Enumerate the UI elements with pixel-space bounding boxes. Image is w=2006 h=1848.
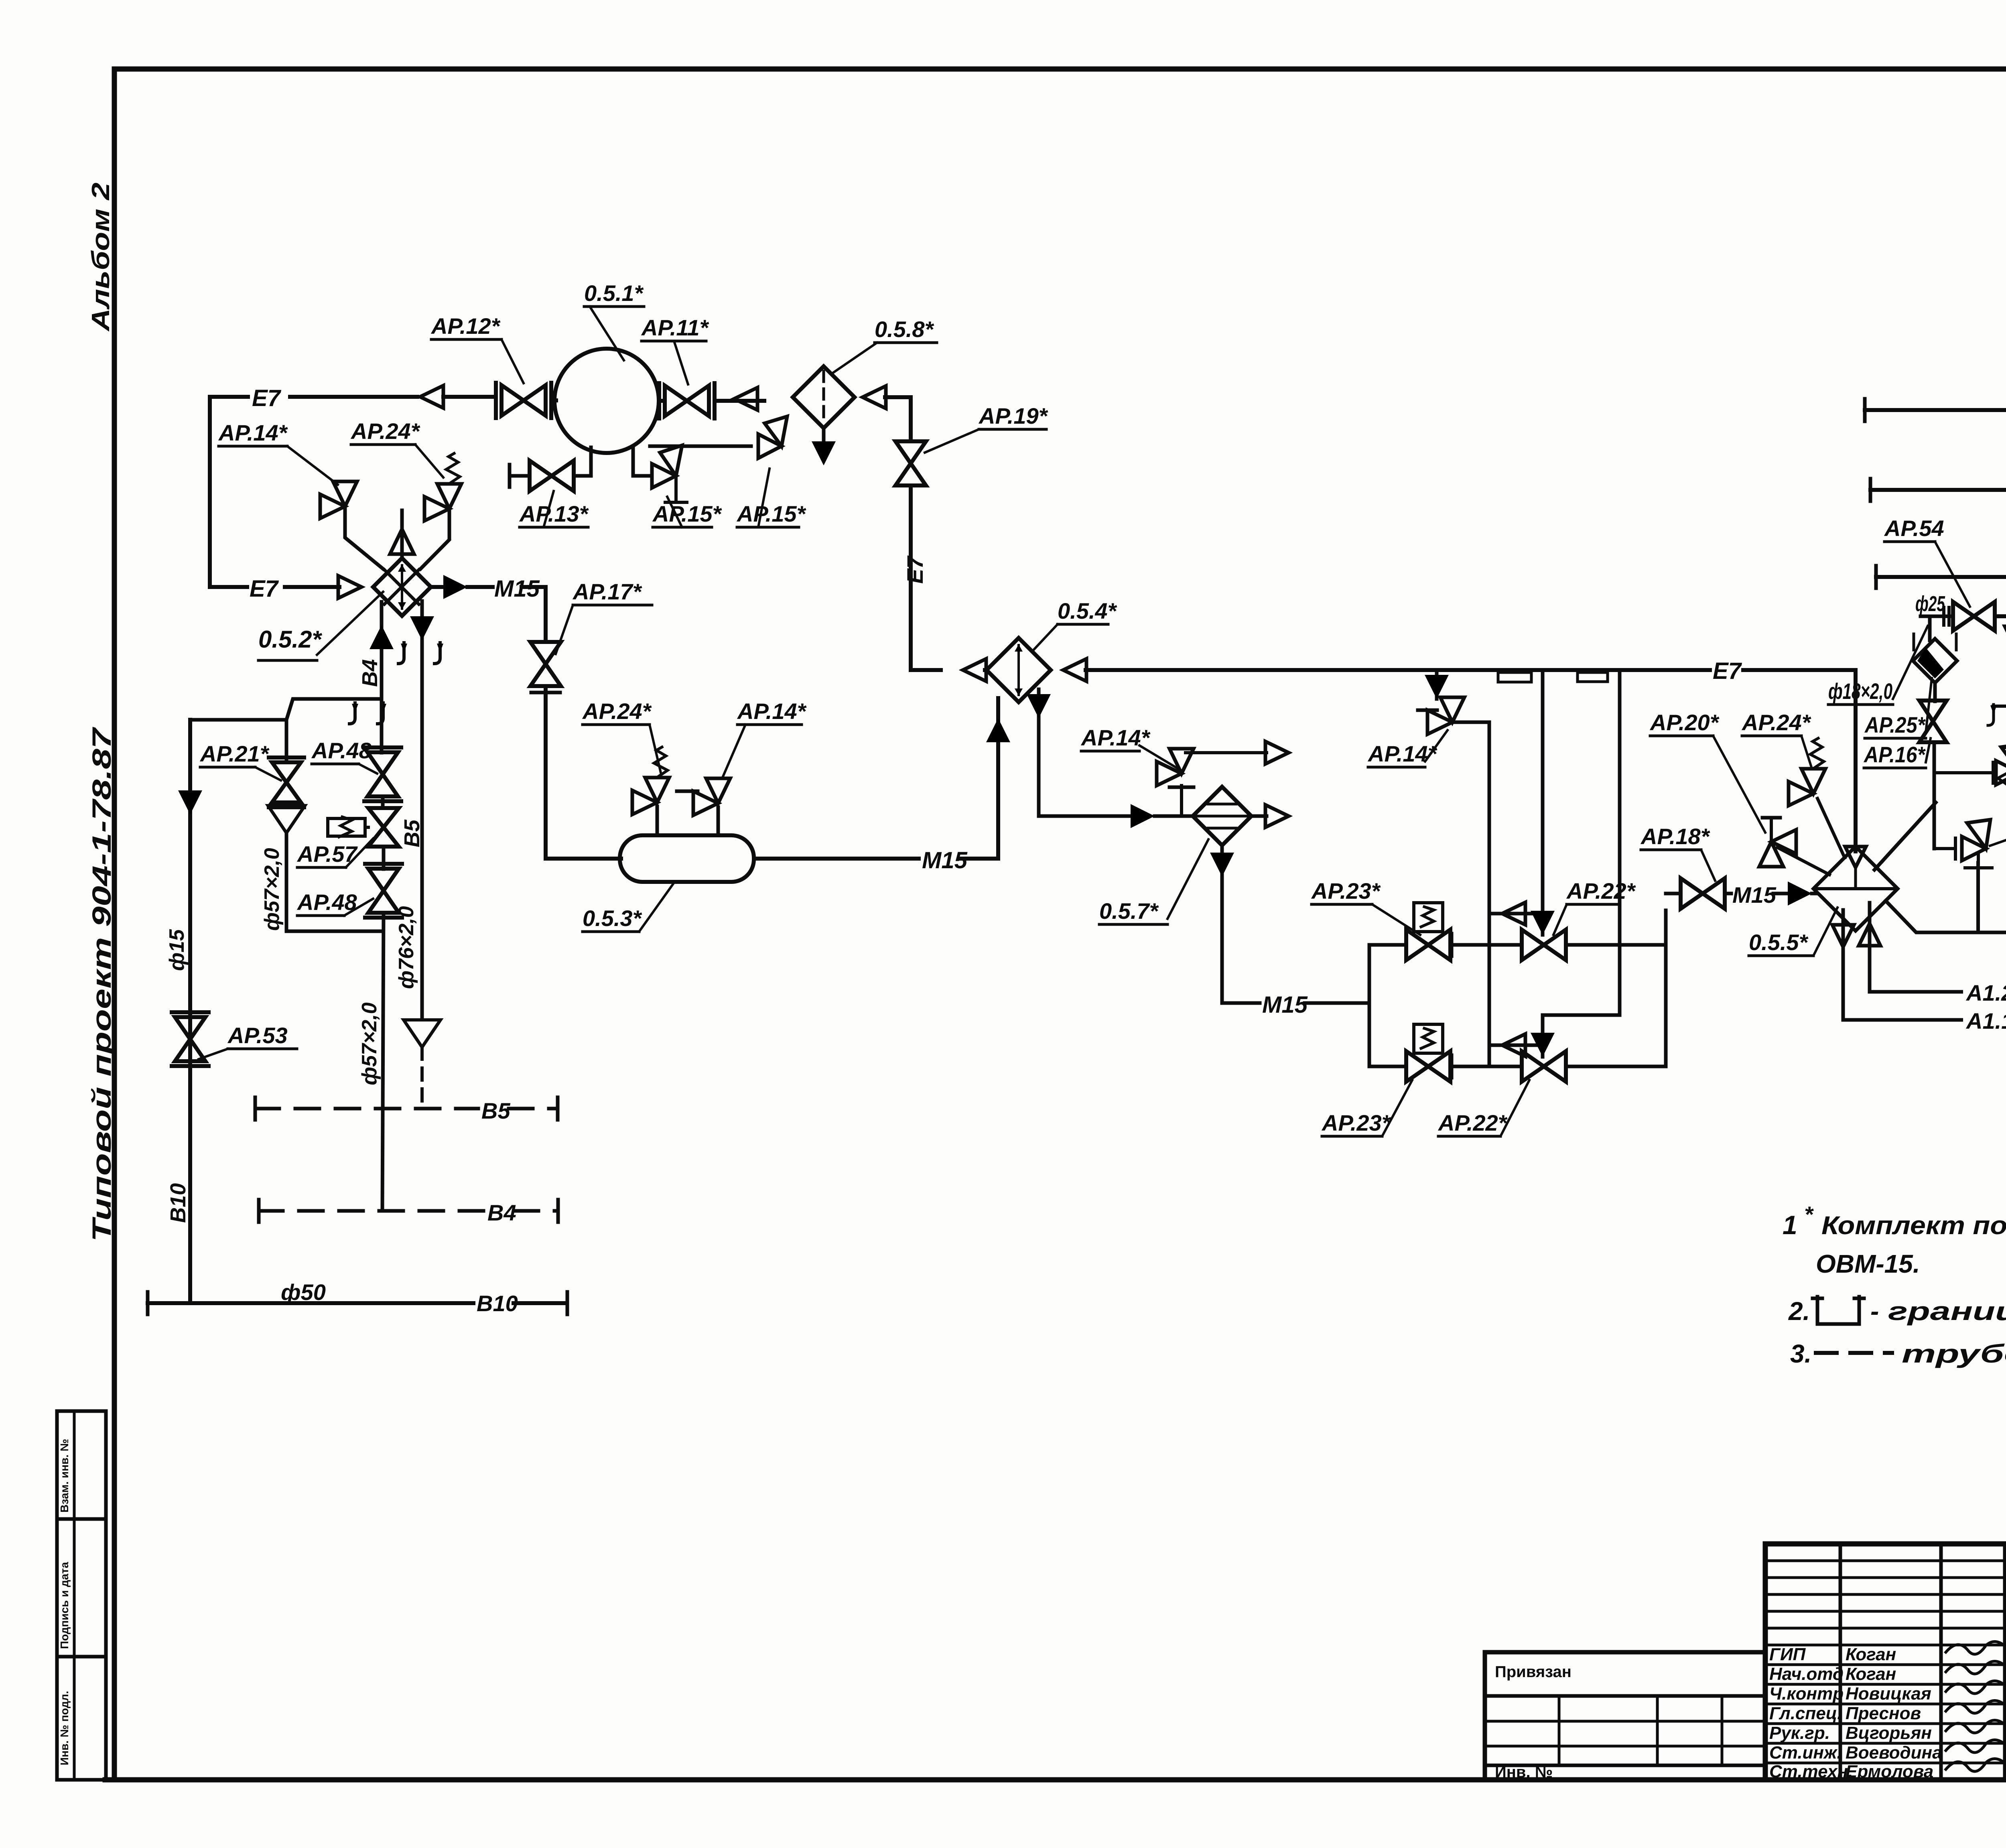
svg-text:Ч.контр: Ч.контр bbox=[1769, 1684, 1844, 1704]
note line 3 bbox=[1788, 1297, 2006, 1326]
title block signature squiggles bbox=[1946, 1641, 2005, 1771]
label 0.5.3 bbox=[583, 883, 674, 932]
label AR.22 lower bbox=[1437, 1080, 1529, 1136]
wire 0.5.6 bottom stubs bbox=[0, 0, 0, 0]
svg-text:АР.19*: АР.19* bbox=[978, 403, 1048, 428]
valve AR.11 bbox=[659, 383, 715, 418]
label AR.57 bbox=[296, 839, 373, 867]
valve AR.17 bbox=[530, 642, 561, 686]
label AR.17 bbox=[556, 579, 652, 654]
wire vessel to valve AR.11 bbox=[659, 399, 664, 403]
svg-text:ф15: ф15 bbox=[165, 929, 189, 971]
exchanger 0.5.4 bbox=[987, 638, 1051, 702]
wire 0.5.2 top vent bbox=[390, 510, 414, 558]
svg-text:ф18×2,0: ф18×2,0 bbox=[1828, 678, 1892, 704]
wire E7 drop to 0.5.5 bbox=[1854, 670, 1858, 851]
svg-text:АР.54: АР.54 bbox=[1884, 516, 1944, 541]
wire AR.15 tap upper bbox=[1934, 762, 1993, 783]
label AR.15 b bbox=[736, 469, 806, 527]
svg-text:ф25: ф25 bbox=[1915, 592, 1945, 616]
svg-text:Е7: Е7 bbox=[902, 555, 928, 584]
label AR.23 lower bbox=[1321, 1080, 1412, 1136]
safety valve AR.24 on 0.5.5 bbox=[1789, 738, 1845, 858]
wire AR.15 lower drop bbox=[1977, 868, 1980, 932]
node A1.1 loop label gap bbox=[1963, 1007, 2006, 1034]
node B5 label bbox=[481, 1098, 510, 1123]
label 0.5.8 bbox=[832, 317, 937, 373]
svg-text:Типовой проект 904-1-78.87: Типовой проект 904-1-78.87 bbox=[87, 726, 116, 1242]
valve AR.15 b bbox=[758, 416, 787, 458]
flow arrow right of 0.5.4 bbox=[1063, 659, 1086, 681]
privyazan table bbox=[1485, 1652, 1765, 1781]
wire 0.5.2 arm up-right bbox=[420, 509, 449, 569]
label AR.18 bbox=[1640, 824, 1715, 881]
svg-text:ф25: ф25 bbox=[2004, 434, 2006, 477]
valve AR.16 bbox=[1919, 701, 1947, 742]
wire AR.22 lower feed bbox=[1531, 672, 1620, 1057]
label AR.24 on 0.5.3 bbox=[582, 699, 661, 774]
label AR.12 bbox=[430, 313, 524, 383]
node f50 label bbox=[281, 1279, 326, 1305]
valve AR.14 on E7 drop bbox=[1418, 697, 1464, 734]
wire shelf lower bbox=[1489, 1034, 1543, 1056]
svg-text:АР.24*: АР.24* bbox=[1741, 710, 1811, 735]
svg-text:В5: В5 bbox=[400, 819, 424, 847]
wire vertical AR.14 branch bbox=[1425, 672, 1449, 699]
wire M15 to bypass bbox=[1222, 1001, 1369, 1005]
svg-text:АР.14*: АР.14* bbox=[1367, 741, 1437, 766]
node f25 rotated label bbox=[2004, 434, 2006, 477]
wire bypass left header bbox=[1368, 945, 1371, 1066]
node E7 main label bbox=[1713, 658, 1742, 684]
filter 0.5.8 bbox=[793, 366, 855, 428]
svg-text:АР.23*: АР.23* bbox=[1321, 1110, 1391, 1135]
svg-text:Новицкая: Новицкая bbox=[1846, 1684, 1931, 1704]
label 0.5.2 bbox=[258, 592, 383, 655]
svg-text:М15: М15 bbox=[1732, 882, 1777, 908]
svg-text:Ст.техн.: Ст.техн. bbox=[1769, 1762, 1853, 1781]
svg-text:АР.48: АР.48 bbox=[311, 738, 372, 763]
svg-text:АР.23*: АР.23* bbox=[1311, 878, 1381, 904]
vessel 0.5.3 bbox=[620, 835, 754, 882]
svg-text:АР.14*: АР.14* bbox=[218, 420, 288, 445]
wire 0.5.4 right drain bbox=[1027, 689, 1193, 828]
svg-text:ф57×2,0: ф57×2,0 bbox=[260, 848, 284, 931]
vessel 0.5.1 drain stubs bbox=[591, 446, 633, 476]
svg-text:граница поставки: граница поставки bbox=[1888, 1297, 2006, 1326]
svg-text:0.5.5*: 0.5.5* bbox=[1749, 930, 1809, 955]
valve AR.13 bbox=[530, 461, 574, 491]
note line 1 bbox=[1783, 1202, 2006, 1240]
node B10 label bbox=[477, 1291, 518, 1316]
boundary rect a bbox=[1498, 672, 1531, 682]
title block grid bbox=[1765, 1544, 2006, 1780]
valve AR.14 near 0.5.7 bbox=[1157, 749, 1194, 816]
svg-text:Е7: Е7 bbox=[1713, 658, 1742, 684]
svg-text:В10: В10 bbox=[166, 1183, 190, 1223]
wire AR.17 to vessel 0.5.3 bbox=[531, 687, 621, 859]
label AR.21 bbox=[199, 741, 281, 780]
svg-text:0.5.4*: 0.5.4* bbox=[1058, 598, 1117, 623]
title block signatures text bbox=[1769, 1645, 1942, 1781]
svg-text:АР.22*: АР.22* bbox=[1437, 1110, 1508, 1135]
svg-text:АР.18*: АР.18* bbox=[1640, 824, 1710, 849]
wire 0.5.5 bottom stubs bbox=[1832, 903, 1880, 992]
funnel on drain bbox=[404, 1020, 441, 1109]
svg-text:АР.24*: АР.24* bbox=[582, 699, 652, 724]
margin text project bbox=[87, 726, 116, 1242]
wire 0.5.2 arm up-left bbox=[345, 506, 383, 569]
svg-text:Рук.гр.: Рук.гр. bbox=[1769, 1723, 1830, 1743]
label AR.20 bbox=[1649, 710, 1765, 833]
node f57 rotated label a bbox=[260, 848, 284, 931]
wire M15 into 0.5.5 bbox=[1726, 881, 1817, 906]
valve AR.15 right lower bbox=[1962, 820, 1992, 868]
node E7 lower label bbox=[250, 576, 279, 602]
node B10 rotated label bbox=[166, 1183, 190, 1223]
wire 0.5.5 up-right arm bbox=[1874, 802, 1936, 870]
svg-text:0.5.8*: 0.5.8* bbox=[875, 317, 934, 342]
valve AR.48 upper bbox=[364, 747, 401, 801]
svg-text:В10: В10 bbox=[477, 1291, 518, 1316]
wire AR.14 drop to shelf bbox=[1452, 722, 1489, 1066]
node B5 rotated label bbox=[400, 819, 424, 847]
wire bypass lower branch bbox=[1369, 1065, 1666, 1068]
label 0.5.7 bbox=[1099, 839, 1208, 924]
flow arrow on E7 top bbox=[420, 386, 443, 408]
label 0.5.4 bbox=[1033, 598, 1117, 650]
svg-text:Ермолова: Ермолова bbox=[1846, 1762, 1933, 1781]
svg-text:АР.12*: АР.12* bbox=[430, 313, 501, 339]
valve AR.53 bbox=[172, 1012, 209, 1066]
wire AR.21 vertical bbox=[285, 720, 288, 762]
label AR.54 bbox=[1884, 516, 1970, 607]
svg-text:АР.48: АР.48 bbox=[296, 889, 357, 915]
margin text Album 2 bbox=[87, 183, 115, 332]
wire AR.19 to 0.5.4 bbox=[911, 668, 987, 672]
svg-text:Вцгорьян: Вцгорьян bbox=[1846, 1723, 1932, 1743]
wire M15 out of 0.5.2 bbox=[431, 575, 546, 599]
flow arrow into 0.5.2 bbox=[338, 576, 361, 598]
label AR.48 lower bbox=[296, 889, 373, 916]
wire shelf upper bbox=[1489, 902, 1543, 925]
svg-text:0.5.1*: 0.5.1* bbox=[584, 280, 644, 306]
wire E7 lower segment bbox=[210, 585, 339, 589]
svg-text:ОВМ-15.: ОВМ-15. bbox=[1816, 1249, 1920, 1278]
valve AR.23 upper bbox=[1406, 903, 1452, 960]
svg-text:В4: В4 bbox=[487, 1200, 516, 1225]
svg-text:2.: 2. bbox=[1788, 1297, 1810, 1326]
svg-text:М15: М15 bbox=[494, 576, 540, 602]
funnel under AR.21 bbox=[268, 806, 305, 931]
svg-text:Е7: Е7 bbox=[250, 576, 279, 602]
safety valve AR.24 top-left bbox=[424, 453, 461, 521]
wire A1.2 line bbox=[1870, 479, 2006, 501]
filter 0.5.7 bbox=[1193, 787, 1251, 845]
left stamp boxes bbox=[57, 1411, 106, 1780]
wire B4 dashed line bbox=[259, 1200, 558, 1222]
wire drain left bbox=[510, 465, 591, 487]
exchanger 0.5.2 underline bbox=[258, 659, 317, 662]
wire corner down to AR.19 bbox=[909, 397, 913, 441]
safety valve AR.24 on 0.5.3 bbox=[632, 747, 669, 814]
wire E7 main line bbox=[1086, 668, 1856, 672]
note line 4 bbox=[1790, 1339, 2006, 1368]
wire E7 left vertical bbox=[208, 397, 212, 587]
valve AR.12 bbox=[496, 383, 551, 418]
svg-text:Ст.инж.: Ст.инж. bbox=[1769, 1743, 1842, 1763]
svg-text:Гл.спец.: Гл.спец. bbox=[1769, 1704, 1842, 1723]
svg-text:А1.1: А1.1 bbox=[1965, 1008, 2006, 1034]
svg-text:0.5.2*: 0.5.2* bbox=[258, 626, 322, 653]
node f76 rotated label bbox=[395, 906, 418, 989]
label f18 bbox=[1828, 626, 1928, 705]
label AR.14 on E7 drop bbox=[1367, 730, 1448, 767]
node A1.2 loop label gap bbox=[1963, 978, 2006, 1005]
svg-text:ф50: ф50 bbox=[281, 1279, 326, 1305]
wire B10 vertical bbox=[188, 720, 192, 1303]
label AR.48 upper bbox=[311, 738, 377, 774]
wire B5 dashed line bbox=[255, 1097, 558, 1120]
svg-text:АР.15*: АР.15* bbox=[652, 501, 722, 526]
boundary rect b bbox=[1578, 672, 1608, 682]
svg-text:М15: М15 bbox=[1262, 992, 1308, 1018]
svg-text:Коган: Коган bbox=[1846, 1645, 1896, 1664]
label AR.15 a bbox=[652, 497, 722, 527]
label AR.25 bbox=[1864, 678, 1932, 738]
flow arrow B10 down bbox=[178, 790, 202, 814]
wire AR.15 drop bbox=[1976, 863, 1980, 932]
wire A1.2 return loop bbox=[1870, 914, 2006, 992]
svg-text:Инв. №: Инв. № bbox=[1495, 1763, 1553, 1781]
node E7 top label bbox=[252, 385, 282, 411]
node B4 label bbox=[487, 1200, 516, 1225]
label AR.22 upper bbox=[1553, 878, 1636, 935]
label 0.5.5 bbox=[1749, 908, 1837, 956]
vessel 0.5.3 nozzle left bbox=[656, 806, 659, 835]
wire B4 horizontal bbox=[190, 699, 382, 720]
wire AR.15 tap lower bbox=[1934, 838, 1955, 859]
svg-text:АР.15*: АР.15* bbox=[736, 501, 806, 526]
svg-text:АР.20*: АР.20* bbox=[1649, 710, 1720, 735]
svg-text:АР.21*: АР.21* bbox=[199, 741, 270, 766]
label AR.14 on 0.5.3 bbox=[722, 699, 807, 778]
exchanger 0.5.2 bbox=[373, 558, 431, 616]
svg-text:В4: В4 bbox=[358, 659, 382, 687]
svg-text:А1.2: А1.2 bbox=[1965, 980, 2006, 1005]
wire AR.20 to 0.5.5 bbox=[1762, 818, 1829, 875]
svg-text:АР.25*: АР.25* bbox=[1864, 712, 1926, 737]
valve AR.23 lower bbox=[1406, 1024, 1452, 1082]
flow arrow before filter bbox=[734, 388, 757, 410]
wire AR.14 vent bbox=[1186, 741, 1289, 764]
svg-text:В5: В5 bbox=[481, 1098, 510, 1123]
filter 0.5.8 drain bbox=[812, 428, 836, 465]
wire B4 column upper bbox=[380, 699, 384, 753]
wire B10 bottom line bbox=[148, 1292, 567, 1314]
svg-text:АР.22*: АР.22* bbox=[1566, 878, 1636, 904]
svg-text:3.: 3. bbox=[1790, 1339, 1811, 1368]
label AR.23 upper bbox=[1311, 878, 1420, 935]
svg-text:ГИП: ГИП bbox=[1769, 1645, 1806, 1664]
valve AR.14 top-left bbox=[320, 481, 357, 518]
wire B4 column mid2 bbox=[382, 847, 386, 869]
vessel 0.5.3 nozzle right bbox=[717, 807, 720, 835]
valve AR.15 a bbox=[652, 445, 687, 502]
wire A1.1 return loop bbox=[1843, 903, 2006, 1020]
svg-text:Воеводина: Воеводина bbox=[1846, 1743, 1942, 1763]
wire f25 vent line bbox=[2005, 617, 2006, 747]
svg-text:*: * bbox=[1804, 1202, 1814, 1227]
wire AR.16 down bbox=[1933, 742, 1936, 849]
wire 0.5.2 bottom left B4 bbox=[370, 602, 394, 699]
wire AR.54 left stub bbox=[1921, 607, 1953, 625]
wire AR.22 upper feed bbox=[1531, 672, 1555, 935]
label 0.5.1 bbox=[584, 280, 644, 360]
wire M15 riser to 0.5.4 bbox=[986, 698, 1010, 859]
svg-text:АР.14*: АР.14* bbox=[737, 699, 807, 724]
wire A1.1 line bbox=[1876, 566, 2006, 588]
svg-text:трубопроводы раздела ВК: трубопроводы раздела ВК bbox=[1902, 1339, 2006, 1368]
valve AR.48 lower bbox=[365, 864, 402, 918]
svg-text:-: - bbox=[1870, 1297, 1879, 1326]
valve AR.22 lower bbox=[1522, 1051, 1566, 1082]
svg-text:Альбом 2: Альбом 2 bbox=[87, 183, 115, 332]
vent outlet bbox=[1998, 747, 2006, 789]
regulator AR.25 bbox=[1913, 634, 1957, 683]
wire B4 column lower bbox=[382, 914, 384, 1211]
wire 0.5.2 bottom right drain bbox=[410, 601, 434, 1019]
wire AR.18 riser bbox=[1664, 910, 1668, 945]
wire M15 vessel to riser bbox=[754, 857, 998, 861]
svg-text:М15: М15 bbox=[922, 847, 968, 873]
valve AR.57 bbox=[328, 808, 399, 847]
label AR.24 top-left bbox=[350, 418, 443, 477]
svg-text:АР.11*: АР.11* bbox=[641, 315, 709, 340]
node M15 label b bbox=[922, 847, 968, 873]
note line 2 bbox=[1816, 1249, 1920, 1278]
svg-text:Взам. инв. №: Взам. инв. № bbox=[58, 1439, 71, 1513]
svg-text:ф57×2,0: ф57×2,0 bbox=[358, 1002, 381, 1085]
node f25 small label bbox=[1915, 592, 1945, 617]
svg-text:Нач.отд: Нач.отд bbox=[1769, 1664, 1844, 1684]
wire lower branch to AR.18 riser bbox=[1664, 945, 1668, 1066]
wire 0.5.5 to 0.5.6 dip bbox=[1886, 901, 2006, 932]
vessel 0.5.1 bbox=[554, 349, 659, 453]
node f15 rotated label bbox=[165, 929, 189, 971]
svg-text:Преснов: Преснов bbox=[1846, 1704, 1921, 1723]
flow arrow left of 0.5.4 bbox=[963, 659, 986, 681]
node M15 label c bbox=[1262, 992, 1308, 1018]
wire E7 to valve AR.12 bbox=[443, 395, 496, 399]
svg-text:Подпись и дата: Подпись и дата bbox=[58, 1562, 71, 1649]
exchanger 0.5.5 bbox=[1813, 847, 1898, 931]
valve AR.14 on 0.5.3 bbox=[677, 778, 730, 815]
flow arrow after 0.5.7 bbox=[1251, 805, 1289, 827]
svg-text:0.5.7*: 0.5.7* bbox=[1099, 898, 1159, 924]
svg-text:АР.17*: АР.17* bbox=[572, 579, 642, 604]
label AR.14 top-left bbox=[218, 420, 338, 485]
wire E7 top-left segment bbox=[210, 395, 417, 399]
svg-text:АР.24*: АР.24* bbox=[350, 418, 420, 444]
node M15 label a bbox=[494, 576, 540, 602]
wire bypass upper branch bbox=[1369, 943, 1666, 947]
node f57 rotated label b bbox=[358, 1002, 381, 1085]
label AR.24 on 0.5.5 bbox=[1741, 710, 1811, 767]
node M15 label d bbox=[1732, 882, 1777, 908]
valve AR.22 upper bbox=[1522, 930, 1566, 960]
label AR.53 bbox=[199, 1023, 297, 1059]
wire drain right bbox=[633, 474, 652, 478]
hooks on vent bbox=[1988, 705, 2006, 725]
svg-text:Инв. № подл.: Инв. № подл. bbox=[58, 1691, 71, 1765]
wire loop bottom bbox=[286, 930, 382, 933]
valve AR.20 bbox=[1759, 830, 1796, 867]
wire B4 column mid1 bbox=[381, 798, 385, 806]
svg-text:АР.13*: АР.13* bbox=[519, 501, 589, 526]
hooks on B4 line bbox=[349, 703, 386, 724]
label AR.15 right lower bbox=[1990, 815, 2006, 846]
flow arrow after filter bbox=[863, 386, 886, 408]
wire AR.25 to AR.16 bbox=[1933, 683, 1937, 701]
label AR.16 bbox=[1863, 738, 1931, 768]
node B4 rotated label bbox=[358, 659, 382, 687]
wire M15 down via AR.17 bbox=[544, 587, 548, 641]
svg-text:Комплект поставки установки: Комплект поставки установки осушки bbox=[1821, 1211, 2006, 1240]
wire A4.4 line bbox=[1865, 399, 2006, 421]
svg-text:1: 1 bbox=[1783, 1210, 1797, 1240]
valve AR.19 bbox=[895, 441, 926, 485]
valve AR.15 right upper bbox=[1996, 744, 2006, 785]
svg-text:0.5.3*: 0.5.3* bbox=[583, 906, 642, 931]
svg-text:Коган: Коган bbox=[1846, 1664, 1896, 1684]
wire valve AR.12 to vessel bbox=[552, 398, 556, 402]
wire filter to corner bbox=[885, 395, 911, 399]
svg-text:АР.16*: АР.16* bbox=[1863, 742, 1926, 767]
svg-text:АР.53: АР.53 bbox=[227, 1023, 288, 1048]
valve AR.54 bbox=[1953, 577, 2006, 631]
wire f18 drop bbox=[1928, 616, 1932, 640]
hooks on drain bbox=[398, 643, 443, 664]
valve AR.21 bbox=[269, 757, 304, 807]
svg-text:Привязан: Привязан bbox=[1495, 1663, 1572, 1681]
wire AR.19 down to main line bbox=[909, 485, 913, 670]
node E7 rotated label bbox=[902, 555, 928, 584]
label AR.13 bbox=[519, 491, 589, 527]
wire vessel side tap bbox=[650, 445, 751, 448]
svg-text:Е7: Е7 bbox=[252, 385, 282, 411]
wire AR.11 to filter bbox=[715, 399, 764, 403]
filter 0.5.7 drain bbox=[1210, 845, 1234, 1003]
label AR.19 bbox=[925, 403, 1048, 453]
valve AR.18 bbox=[1666, 878, 1725, 909]
label AR.14 near 0.5.7 bbox=[1080, 725, 1178, 768]
label AR.11 bbox=[641, 315, 709, 384]
